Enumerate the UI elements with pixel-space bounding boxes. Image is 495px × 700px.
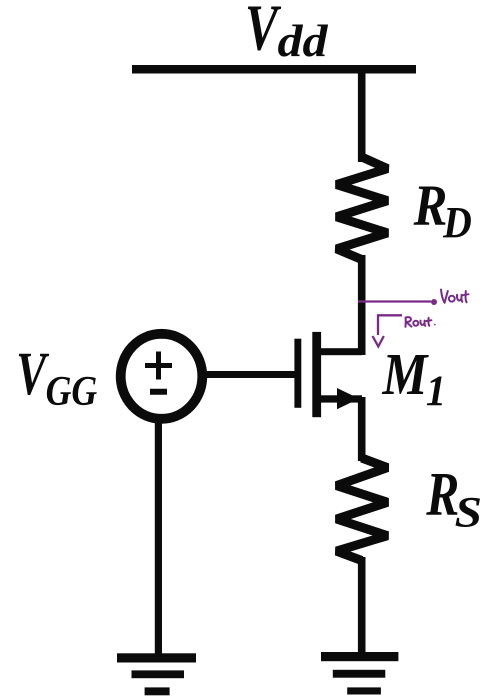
- label RS: [425, 460, 482, 537]
- source VGG minus: [150, 389, 167, 395]
- node vout annotation line: [358, 300, 431, 302]
- ground (VGG side): [117, 653, 196, 695]
- transistor M1 source lead: [317, 395, 362, 402]
- wire RS to ground: [358, 557, 366, 654]
- transistor M1 source arrow: [337, 388, 359, 409]
- svg-text:S: S: [455, 489, 482, 536]
- transistor M1 drain lead: [317, 348, 362, 355]
- ground (source side): [321, 652, 398, 695]
- svg-text:V: V: [245, 0, 281, 64]
- Rout annotation bracket: [378, 315, 402, 335]
- source VGG circle: [121, 334, 203, 419]
- Vdd rail: [132, 65, 416, 74]
- wire VGG to gate: [205, 371, 298, 378]
- resistor RS: [337, 458, 388, 561]
- wire RD to drain: [358, 255, 366, 355]
- node vout annotation dot: [431, 299, 437, 305]
- label Rout (handwritten): [406, 317, 436, 327]
- transistor M1 channel bar: [312, 332, 321, 417]
- wire source to RS: [358, 397, 366, 461]
- label Vdd: [245, 0, 329, 67]
- wire rail to RD: [358, 70, 366, 162]
- svg-text:R: R: [413, 172, 448, 237]
- svg-text:M: M: [382, 341, 430, 407]
- svg-text:1: 1: [426, 368, 446, 415]
- source VGG plus: [145, 363, 172, 368]
- transistor M1 gate bar: [294, 339, 301, 408]
- resistor RD: [337, 157, 388, 260]
- label VGG: [16, 339, 97, 414]
- svg-text:GG: GG: [46, 368, 98, 414]
- svg-text:V: V: [16, 339, 49, 407]
- label vout (handwritten): [441, 290, 469, 303]
- label M1: [382, 341, 447, 415]
- Rout annotation arrowhead: [373, 336, 384, 347]
- wire VGG to ground: [155, 420, 162, 655]
- svg-text:dd: dd: [278, 17, 329, 66]
- label RD: [413, 172, 472, 247]
- svg-text:D: D: [442, 199, 472, 247]
